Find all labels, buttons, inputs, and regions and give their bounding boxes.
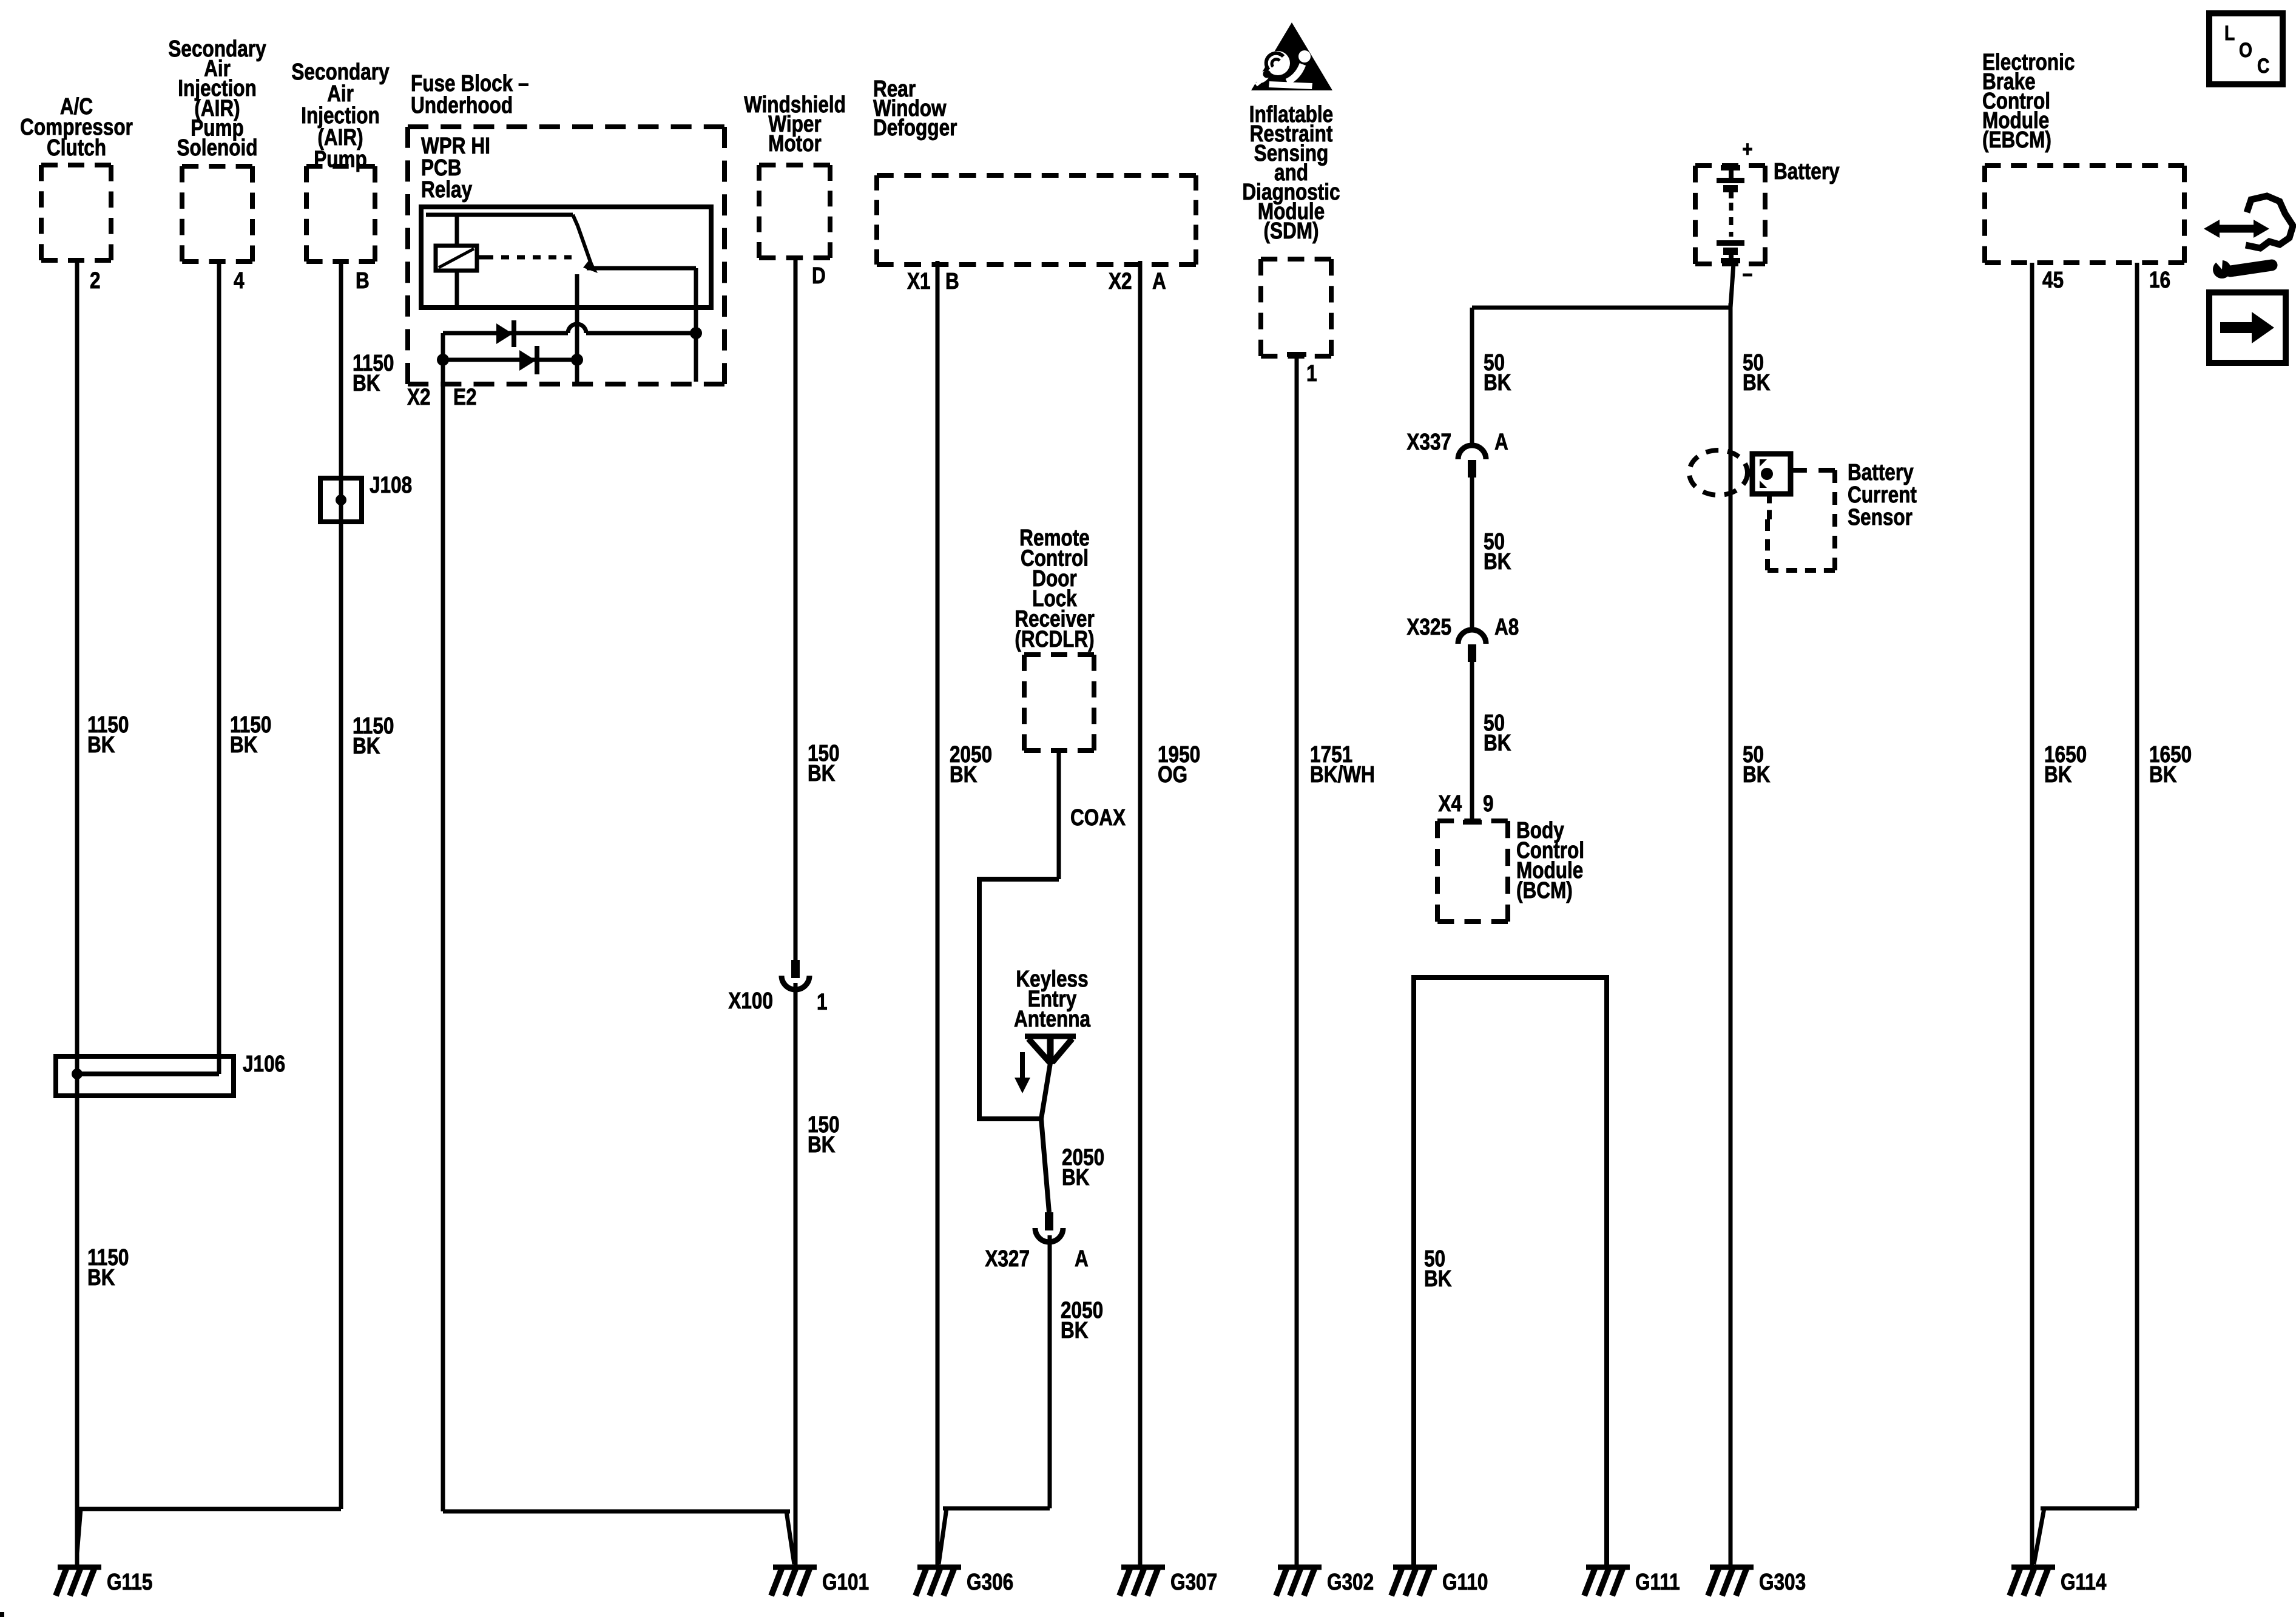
wire label 1150 BK (solenoid) — [230, 712, 271, 757]
relay switch throw bar — [587, 268, 696, 333]
wire label 50 BK (chain upper) — [1484, 349, 1511, 395]
svg-text:G307: G307 — [1170, 1569, 1217, 1595]
EBCM pin 45 label — [2042, 267, 2064, 292]
relay switch feed line — [426, 213, 573, 217]
svg-text:45: 45 — [2042, 267, 2064, 292]
Rear Window Defogger box — [877, 175, 1196, 265]
wire label 1751 BK/WH — [1310, 741, 1375, 787]
EBCM box — [1985, 166, 2184, 263]
splice J106 — [56, 1056, 234, 1096]
battery current sensor dashed outline — [1768, 470, 1835, 570]
svg-text:(RCDLR): (RCDLR) — [1015, 626, 1094, 652]
X325 pin A8 label — [1494, 614, 1519, 640]
svg-text:(SDM): (SDM) — [1263, 218, 1319, 243]
svg-text:2: 2 — [90, 268, 101, 293]
COAX wire from RCDLR — [1057, 751, 1061, 879]
svg-text:BK: BK — [2044, 761, 2072, 787]
svg-text:COAX: COAX — [1070, 805, 1126, 830]
svg-text:Defogger: Defogger — [873, 115, 957, 140]
wire 1150 BK from solenoid pin 4 to J106 — [217, 262, 221, 1074]
wire label 50 BK (chain middle) — [1484, 528, 1511, 574]
Inflatable Restraint Sensing and Diagnostic Module (SDM) label — [1242, 101, 1340, 243]
BCM pin 9 label — [1483, 791, 1494, 816]
svg-text:A: A — [1494, 429, 1508, 454]
svg-text:BK: BK — [353, 370, 380, 396]
service manual icon — [2204, 196, 2293, 278]
ground G110 — [1391, 1567, 1488, 1596]
battery minus label — [1742, 263, 1752, 287]
AIR Pump box — [306, 166, 375, 262]
X100 pin 1 label — [817, 989, 828, 1014]
svg-text:BK: BK — [1484, 370, 1511, 395]
connector X100 — [782, 960, 809, 990]
Body Control Module (BCM) label — [1516, 817, 1584, 903]
Keyless Entry Antenna label — [1014, 966, 1091, 1031]
keyless entry antenna symbol — [1025, 1034, 1076, 1064]
wire 1150 BK from A/C clutch pin 2 to G115 — [75, 260, 79, 1567]
fuse block diode line 1 — [443, 324, 696, 333]
stray mark bottom-left corner — [0, 1612, 4, 1617]
wire 1650 BK EBCM pin 16 to G114 — [2034, 263, 2137, 1564]
J106 label — [243, 1051, 285, 1076]
wire 2050 BK from antenna — [1041, 1063, 1050, 1212]
ground G111 — [1584, 1567, 1680, 1596]
svg-text:G101: G101 — [822, 1569, 869, 1595]
svg-text:9: 9 — [1483, 791, 1494, 816]
pin B label — [356, 268, 370, 293]
wire line1 left corner down — [441, 333, 445, 360]
wire 150 BK below X100 to G101 — [794, 983, 798, 1567]
wire label 1650 BK (pin16) — [2149, 741, 2192, 787]
relay switch common vertical — [575, 274, 579, 360]
wire label 50 BK (chain lower) — [1484, 710, 1511, 755]
svg-text:G302: G302 — [1327, 1569, 1374, 1595]
svg-text:Clutch: Clutch — [47, 135, 106, 160]
wire label 1950 OG — [1158, 741, 1200, 787]
junction dot line2-left — [437, 354, 449, 366]
wire label 50 BK (battery upper) — [1743, 349, 1771, 395]
wire 1650 BK EBCM pin 45 to G114 — [2030, 263, 2034, 1567]
E2 pin label — [453, 384, 477, 410]
svg-text:X337: X337 — [1406, 429, 1451, 454]
wire label 1150 BK (upper) — [87, 712, 129, 757]
svg-text:Relay: Relay — [421, 177, 473, 202]
svg-text:(BCM): (BCM) — [1516, 877, 1573, 903]
wire label 2050 BK (antenna lower) — [1061, 1297, 1103, 1343]
WPR HI PCB Relay label — [421, 133, 490, 202]
Secondary Air Injection (AIR) Pump label — [291, 59, 390, 172]
svg-text:X100: X100 — [728, 988, 773, 1013]
svg-text:X327: X327 — [985, 1246, 1030, 1271]
X337 label — [1406, 429, 1451, 454]
svg-text:BK: BK — [2149, 761, 2177, 787]
svg-text:G114: G114 — [2061, 1569, 2107, 1595]
svg-text:Underhood: Underhood — [411, 92, 513, 118]
SDM airbag warning triangle icon — [1251, 22, 1332, 90]
relay K box — [421, 207, 711, 308]
splice J108 — [320, 478, 362, 522]
wire label 2050 BK (antenna upper) — [1062, 1144, 1104, 1190]
X325 label — [1406, 614, 1451, 640]
svg-text:OG: OG — [1158, 761, 1187, 787]
diode D2 — [519, 346, 539, 374]
ground G303 — [1708, 1567, 1806, 1596]
svg-text:BK: BK — [1484, 548, 1511, 574]
svg-text:BK: BK — [87, 732, 115, 757]
wire label 50 BK (loop) — [1424, 1246, 1452, 1291]
svg-text:BK: BK — [1743, 761, 1771, 787]
svg-text:BK: BK — [1424, 1266, 1452, 1291]
Battery label — [1774, 158, 1840, 184]
wire label 150 BK (lower) — [808, 1112, 840, 1157]
Battery box — [1695, 166, 1765, 264]
wire label 2050 BK — [950, 741, 992, 787]
Battery Current Sensor label — [1848, 459, 1917, 530]
Fuse Block - Underhood box — [408, 127, 724, 384]
Windshield Wiper Motor box — [759, 165, 830, 258]
COAX label — [1070, 805, 1126, 830]
svg-text:A8: A8 — [1494, 614, 1519, 640]
antenna ground-direction arrow — [1015, 1052, 1030, 1093]
svg-text:BK: BK — [808, 1132, 836, 1157]
svg-text:G111: G111 — [1635, 1569, 1680, 1595]
svg-text:Solenoid: Solenoid — [177, 135, 257, 160]
X2 pin label (defogger) — [1109, 268, 1132, 294]
next page arrow icon — [2209, 292, 2286, 363]
svg-text:G306: G306 — [967, 1569, 1013, 1595]
battery current sensor clamp ellipse — [1689, 450, 1747, 495]
Windshield Wiper Motor label — [744, 92, 846, 156]
wire 50 BK ground loop G110-G111 — [1414, 977, 1607, 1567]
Electronic Brake Control Module (EBCM) label — [1982, 49, 2075, 152]
X4 connector label — [1438, 791, 1462, 816]
svg-text:BK: BK — [950, 761, 977, 787]
ground G114 — [2010, 1567, 2107, 1596]
Rear Window Defogger label — [873, 76, 957, 140]
wire 50 BK battery negative branch — [1472, 308, 1730, 444]
svg-text:4: 4 — [234, 268, 245, 293]
wire 50 BK X325 to BCM — [1470, 662, 1474, 820]
connector X325 — [1458, 630, 1486, 662]
svg-text:+: + — [1742, 137, 1752, 161]
wire 150 BK from fuse E2 to G101 — [443, 360, 794, 1564]
J108 label — [370, 472, 412, 498]
pin 2 label — [90, 268, 101, 293]
svg-text:X2: X2 — [1109, 268, 1132, 294]
battery current sensor symbol box — [1752, 454, 1791, 494]
X337 pin A label — [1494, 429, 1508, 454]
ground G307 — [1119, 1567, 1217, 1596]
Fuse Block - Underhood title — [411, 70, 529, 118]
wire label 1150 BK (lower) — [87, 1244, 129, 1290]
Remote Control Door Lock Receiver label — [1015, 525, 1095, 652]
wire label 1650 BK (pin45) — [2044, 741, 2087, 787]
RCDLR box — [1024, 655, 1094, 751]
X327 label — [985, 1246, 1030, 1271]
wire 150 BK from wiper motor pin D — [794, 258, 798, 960]
svg-text:X325: X325 — [1406, 614, 1451, 640]
svg-text:A: A — [1152, 268, 1166, 294]
wire 50 BK battery negative to G303 — [1730, 263, 1734, 1567]
X100 label — [728, 988, 773, 1013]
ground bus wire to G115 — [77, 1509, 341, 1553]
svg-text:BK: BK — [1743, 370, 1771, 395]
fuse block diode line 2 — [443, 358, 577, 362]
svg-text:O: O — [2239, 39, 2252, 62]
connector X327 — [1035, 1212, 1063, 1242]
svg-text:G115: G115 — [107, 1569, 152, 1595]
svg-text:A: A — [1075, 1246, 1089, 1271]
svg-text:(EBCM): (EBCM) — [1982, 127, 2051, 152]
pin D label — [812, 263, 826, 288]
svg-text:−: − — [1742, 263, 1752, 287]
pin 4 label — [234, 268, 245, 293]
1150 BK label at fuse block — [353, 350, 394, 396]
relay coil — [436, 246, 477, 271]
svg-text:BK: BK — [353, 733, 380, 758]
svg-text:C: C — [2257, 55, 2269, 78]
Secondary Air Injection (AIR) Pump Solenoid label — [168, 36, 266, 160]
ground G302 — [1276, 1567, 1374, 1596]
svg-text:X4: X4 — [1438, 791, 1462, 816]
svg-text:1: 1 — [1306, 360, 1317, 386]
EBCM pin 16 label — [2149, 267, 2170, 292]
wire 1950 OG defogger X2-A to G307 — [1138, 261, 1143, 1567]
X1 pin label — [907, 268, 931, 294]
SDM pin 1 label — [1306, 360, 1317, 386]
LOC reference box icon — [2209, 13, 2283, 84]
svg-text:16: 16 — [2149, 267, 2170, 292]
svg-text:Sensor: Sensor — [1848, 504, 1913, 530]
svg-text:G110: G110 — [1442, 1569, 1488, 1595]
svg-text:Antenna: Antenna — [1014, 1006, 1091, 1031]
diode D1 — [496, 320, 516, 347]
junction dot line2-right — [571, 354, 583, 382]
svg-text:B: B — [356, 268, 370, 293]
SDM pin bar — [1287, 352, 1306, 357]
X327 pin A label — [1075, 1246, 1089, 1271]
svg-text:J108: J108 — [370, 472, 412, 498]
A/C Compressor Clutch label — [20, 93, 133, 160]
svg-text:X1: X1 — [907, 268, 931, 294]
svg-text:X2: X2 — [407, 384, 431, 410]
svg-text:E2: E2 — [453, 384, 477, 410]
svg-text:Motor: Motor — [768, 130, 822, 156]
wire 50 BK X337 to X325 — [1470, 478, 1474, 628]
svg-text:BK: BK — [1061, 1317, 1089, 1343]
wire 1150 BK from pump pin B to bottom bus — [339, 262, 343, 1509]
relay coil feed vertical — [455, 215, 459, 305]
wire 2050 BK defogger X1-B to G306 — [936, 261, 940, 1567]
svg-text:B: B — [945, 268, 959, 294]
X2 pin label — [407, 384, 431, 410]
battery cell symbols — [1717, 165, 1744, 263]
antenna shield enclosure — [979, 879, 1059, 1119]
svg-text:BK: BK — [1062, 1164, 1090, 1190]
wire label 150 BK (upper) — [808, 740, 840, 786]
svg-text:Battery: Battery — [1774, 158, 1840, 184]
ground G101 — [771, 1567, 869, 1596]
wire label 1150 BK (pump) — [353, 713, 394, 758]
AIR Pump Solenoid box — [182, 166, 252, 262]
relay coil-to-switch dashed link — [485, 255, 572, 260]
pin A label (defogger) — [1152, 268, 1166, 294]
connector X337 — [1458, 445, 1486, 478]
svg-text:BK: BK — [87, 1264, 115, 1290]
svg-text:BK: BK — [1484, 730, 1511, 755]
A/C Compressor Clutch box — [41, 165, 111, 260]
wire 1751 BK/WH from SDM to G302 — [1295, 356, 1299, 1567]
ground G306 — [916, 1567, 1013, 1596]
SDM box — [1261, 259, 1331, 356]
svg-text:BK/WH: BK/WH — [1310, 761, 1375, 787]
BCM pin bar — [1463, 820, 1482, 825]
junction dot line1-right — [690, 327, 702, 382]
pin B label (defogger) — [945, 268, 959, 294]
relay switch arm — [573, 215, 598, 273]
svg-text:1: 1 — [817, 989, 828, 1014]
wire label 50 BK (battery lower) — [1743, 741, 1771, 787]
svg-text:J106: J106 — [243, 1051, 285, 1076]
relay coil link stub — [477, 255, 485, 260]
ground G115 — [56, 1567, 152, 1596]
svg-text:G303: G303 — [1759, 1569, 1806, 1595]
battery plus label — [1742, 137, 1752, 161]
svg-text:BK: BK — [808, 760, 836, 786]
Body Control Module box — [1437, 821, 1508, 922]
svg-text:BK: BK — [230, 732, 258, 757]
wire 2050 BK below X327 to G306 — [939, 1235, 1050, 1564]
svg-text:L: L — [2224, 22, 2235, 45]
svg-text:D: D — [812, 263, 826, 288]
